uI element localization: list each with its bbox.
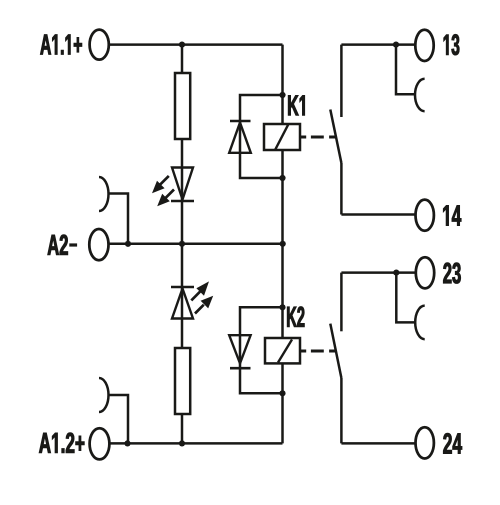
mechanical link K2 (dashed) [300,350,336,353]
terminal 13 [415,30,433,61]
wire resistor 2 bottom lead [181,414,184,443]
terminal A2- [89,229,108,260]
label A1.2+ [39,433,84,453]
label 24 [443,433,462,453]
mechanical link K1 (dashed) [300,136,336,139]
wire contact 14 [341,213,415,216]
contact K1 fixed lead [340,45,343,117]
junction K2 coil top / diode 2 [279,304,285,310]
junction A2 rail / LED branch [179,241,185,247]
freewheeling diode (K1 coil) [229,121,251,153]
terminal A1.2+ [90,428,110,459]
junction node 23 / socket [393,270,399,276]
contact K1 blade [330,110,341,164]
LED light arrows (channel 2) [191,281,213,313]
junction A2 rail / socket [125,241,131,247]
wire socket branch A2 [109,194,129,244]
LED indicator (channel 2) [171,287,194,319]
wire K1 branch bottom [281,150,284,244]
terminal 24 [416,427,434,458]
contact K2 blade [330,324,341,378]
terminal 23 [416,257,434,288]
plug-in bridge socket (A1.2) [99,378,109,412]
junction top rail / R1 branch [179,42,185,48]
plug-in bridge socket (23) [415,306,425,340]
wire LED 2 branch [181,244,184,348]
label K2 [287,307,304,327]
wire contact 23 [341,271,416,274]
junction A2 rail / K branch [280,241,286,247]
wire resistor 1 / LED 1 branch [181,139,184,244]
terminal A1.1+ [90,30,109,60]
wire bottom rail [109,442,282,445]
wire contact 13 [341,43,415,46]
freewheeling diode (K2 coil) [229,335,250,368]
contact K2 bottom lead [340,378,343,443]
contact K1 bottom lead [340,163,343,215]
terminal 14 [416,200,434,231]
label 23 [443,263,460,284]
wire K2 branch bottom [281,363,284,443]
junction bottom rail / R2 branch [179,440,185,446]
label 14 [443,205,461,225]
plug-in bridge socket (13) [415,79,425,111]
wire resistor 1 top lead [181,45,184,73]
junction K2 coil bottom / diode 2 [279,390,285,396]
wire socket branch 13 [396,45,416,95]
wire diode 2 parallel link [240,307,283,393]
wire socket branch 23 [396,273,415,323]
wire K1 branch top [281,45,284,124]
LED indicator (channel 1) [171,168,194,202]
wire A2 rail [109,243,283,246]
wire top rail [109,43,283,46]
contact K2 fixed lead [340,273,343,332]
junction bottom rail / socket [124,440,130,446]
wire diode 1 parallel link [240,95,283,178]
plug-in bridge socket (A2) [99,177,109,211]
label 13 [444,34,460,55]
resistor (channel 2) [175,348,190,414]
wire contact 24 [341,442,415,445]
label K1 [288,95,304,115]
relay coil K1 [264,124,300,150]
wire socket branch A1.2 [109,395,129,443]
junction node 13 / socket [393,42,399,48]
label A1.1+ [40,35,82,55]
wire K2 branch top [281,244,284,338]
junction K1 coil bottom / diode 1 [279,175,285,181]
label A2- [48,235,77,255]
junction K1 coil top / diode 1 [279,92,285,98]
relay coil K2 [265,338,300,363]
LED light arrows (channel 1) [152,176,174,206]
resistor (channel 1) [175,73,190,139]
